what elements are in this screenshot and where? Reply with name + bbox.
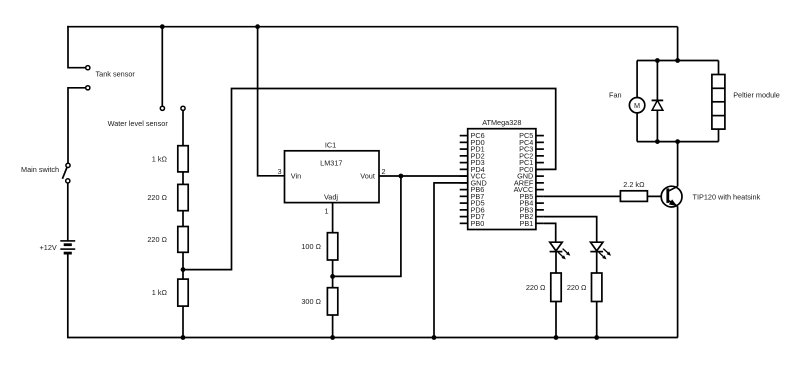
svg-text:300 Ω: 300 Ω [301, 297, 321, 306]
svg-text:100 Ω: 100 Ω [301, 242, 321, 251]
resistor R3 220 [178, 227, 188, 253]
resistor R4 1k [178, 279, 188, 306]
ATMega328 chip box [468, 129, 536, 230]
wire PB5 to base resistor [544, 195, 621, 197]
node junction feed bottom [675, 139, 680, 144]
wire contact D to R1 [182, 110, 184, 145]
wire tank sensor B down to main switch [68, 88, 86, 164]
main switch lever [62, 168, 67, 179]
svg-text:TIP120 with heatsink: TIP120 with heatsink [693, 192, 761, 201]
resistor 2.2k [620, 191, 647, 202]
svg-text:IC1: IC1 [325, 141, 336, 150]
main switch contact top [66, 163, 70, 167]
wire 300 to bottom rail [332, 315, 334, 338]
resistor R2 220 [178, 184, 188, 210]
tank sensor contact B [86, 86, 90, 90]
wire R3 to R4 [182, 252, 184, 279]
peltier module [712, 75, 725, 130]
fan motor M1 [629, 98, 644, 113]
battery +12V [60, 241, 75, 253]
svg-text:PB1: PB1 [520, 219, 534, 228]
tank sensor contact A [86, 66, 90, 70]
node junction feed top [675, 58, 680, 63]
svg-text:2.2 kΩ: 2.2 kΩ [623, 180, 645, 189]
wire LED1 to resistor [555, 251, 557, 273]
chip pin labels left [471, 131, 487, 228]
resistor LED1 220 [551, 273, 561, 302]
svg-text:Tank sensor: Tank sensor [96, 70, 136, 79]
wire peltier bottom [718, 129, 720, 142]
wire GND to bottom rail [434, 183, 468, 338]
node junction diode top [655, 58, 660, 63]
node junction top rail Vin [255, 24, 260, 29]
wire bottom rail [67, 337, 678, 339]
LED D1 [550, 242, 571, 259]
wire R2 to R3 [182, 211, 184, 227]
svg-text:M: M [634, 101, 640, 110]
wire emitter to bottom rail [677, 206, 679, 337]
node junction bottom rail GND [432, 335, 437, 340]
diode D3 flyback [652, 100, 664, 110]
node junction top rail water sensor [160, 24, 165, 29]
wire Vadj down [332, 203, 334, 233]
resistor 300 ohm [327, 288, 337, 315]
node junction bottom rail ladder [181, 335, 186, 340]
wire LED2 resistor to rail [596, 302, 598, 338]
wire divider tap to PC0 [183, 89, 556, 270]
svg-text:Fan: Fan [609, 91, 622, 100]
svg-text:3: 3 [277, 167, 281, 176]
wire collector [677, 142, 679, 187]
wire peltier top [718, 61, 720, 75]
wire water level sensor drop [161, 27, 163, 107]
svg-text:Main switch: Main switch [21, 165, 59, 174]
op-amp U1 LM317 box [285, 151, 380, 203]
wire left rail to tank sensor contact A [68, 26, 86, 68]
wire LED1 resistor to rail [555, 302, 557, 338]
svg-text:2: 2 [382, 167, 386, 176]
wire battery to bottom rail [67, 254, 69, 338]
wire fan drop [636, 61, 638, 98]
wire main switch to battery [67, 183, 69, 241]
resistor 100 ohm [327, 233, 337, 260]
chip pin labels right [514, 131, 534, 228]
node junction rail LED1 [554, 335, 559, 340]
node junction adj divider [330, 274, 335, 279]
svg-text:ATMega328: ATMega328 [482, 118, 521, 127]
wire top rail down to fan circuit [677, 27, 679, 61]
wire R4 to bottom rail [182, 306, 184, 337]
wire 2.2k to base [647, 195, 667, 197]
svg-text:220 Ω: 220 Ω [526, 283, 546, 292]
water level sensor contact C [160, 106, 164, 110]
node junction diode bottom [655, 139, 660, 144]
svg-text:1 kΩ: 1 kΩ [152, 288, 168, 297]
node junction Vout feedback [399, 174, 404, 179]
svg-text:220 Ω: 220 Ω [147, 193, 167, 202]
wire PB2 to LED2 [544, 217, 597, 243]
wire top rail [67, 26, 677, 28]
svg-text:LM317: LM317 [320, 158, 342, 167]
chip pin stubs left [460, 136, 468, 224]
svg-text:1: 1 [324, 206, 328, 215]
svg-text:Vout: Vout [360, 172, 375, 181]
svg-text:PB0: PB0 [471, 219, 485, 228]
wire LED2 to resistor [596, 251, 598, 273]
LED D2 [590, 242, 611, 259]
water level sensor contact D [181, 106, 185, 110]
resistor LED2 220 [592, 273, 602, 302]
node junction bottom rail 300 [330, 335, 335, 340]
wire motor to bottom [636, 113, 638, 142]
wire Vin drop from top rail [258, 27, 285, 176]
node junction rail LED2 [594, 335, 599, 340]
svg-text:Peltier module: Peltier module [733, 91, 780, 100]
wire 100 to 300 [332, 260, 334, 288]
wire Vout to VCC [379, 175, 468, 177]
main switch contact bottom [66, 179, 70, 183]
wire fan circuit bottom [637, 141, 719, 143]
transistor Q1 TIP120 [661, 186, 682, 207]
wire feedback to Vout [333, 176, 401, 276]
node divider junction [181, 267, 186, 272]
wire diode top [656, 61, 658, 101]
svg-text:Vin: Vin [291, 172, 301, 181]
resistor R1 1k [178, 146, 188, 172]
wire diode bottom [656, 110, 658, 141]
svg-text:220 Ω: 220 Ω [147, 235, 167, 244]
svg-text:Water level sensor: Water level sensor [108, 119, 169, 128]
svg-text:+12V: +12V [40, 243, 57, 252]
chip pin stubs right [536, 136, 544, 224]
wire PB1 to LED1 [544, 223, 556, 242]
wire R1 to R2 [182, 172, 184, 185]
svg-text:Vadj: Vadj [324, 193, 338, 202]
wire fan circuit top [637, 60, 719, 62]
svg-text:220 Ω: 220 Ω [567, 283, 587, 292]
svg-text:1 kΩ: 1 kΩ [152, 154, 168, 163]
